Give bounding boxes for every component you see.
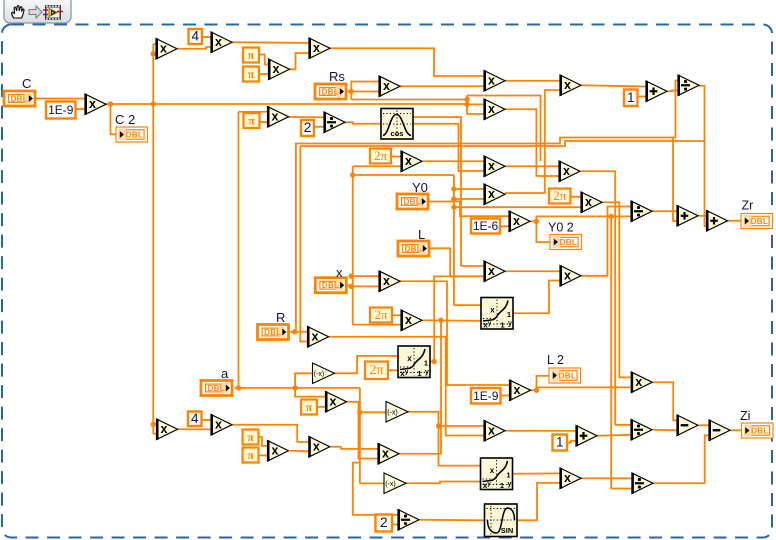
wire 1E-9 to multiply [76, 108, 86, 110]
svg-text:2: 2 [380, 514, 388, 530]
wire M8 out to M7 bottom [400, 85, 484, 87]
svg-text:x: x [330, 394, 337, 408]
wire const2b to D7 bottom [392, 523, 398, 525]
add A4 [576, 425, 597, 446]
junction V1 bus [151, 101, 156, 106]
junction Rs [349, 89, 354, 94]
junction bus B [464, 102, 469, 107]
svg-text:x: x [215, 35, 222, 49]
svg-text:1: 1 [556, 435, 564, 450]
control terminal x [315, 278, 346, 293]
wire M12 out up to M13 bottom [505, 90, 560, 193]
label x [336, 265, 343, 280]
wire x352 bus y175 [353, 174, 454, 176]
control terminal R [258, 325, 289, 340]
multiply M9 [484, 99, 505, 120]
svg-text:4: 4 [191, 411, 199, 426]
multiply M10 [484, 156, 505, 177]
svg-text:x: x [313, 41, 320, 55]
wire M23 out to A4 top [506, 430, 577, 432]
multiply M33 [378, 443, 399, 464]
multiply M31 [309, 436, 330, 457]
multiply M5 [309, 38, 330, 59]
divide D1 [324, 112, 345, 133]
wire x352 to M25 bottom [353, 324, 401, 326]
power of x icon POW3 [481, 458, 513, 490]
svg-text:x: x [313, 439, 320, 453]
svg-text:x: x [488, 187, 495, 201]
svg-text:2π: 2π [374, 148, 388, 163]
indicator terminal Zi [742, 423, 774, 438]
label Zr [742, 199, 754, 213]
wire M21 out down to S1 top [653, 382, 677, 420]
multiply M6 [268, 106, 289, 127]
svg-text:Zi: Zi [740, 409, 750, 423]
wire M28 out to M30 bottom [178, 428, 212, 430]
junction M20 out [534, 219, 539, 224]
wire M16 out to M10 top [423, 160, 484, 162]
wire M24 out up to D3 top [582, 207, 632, 276]
svg-text:x: x [405, 154, 412, 168]
junction V1 top [151, 51, 156, 56]
junction x175 [350, 172, 355, 177]
add A1 [646, 81, 667, 102]
svg-text:x: x [563, 164, 570, 178]
wire 2pi T3 to M25 top [392, 314, 401, 316]
svg-text:y: y [508, 481, 512, 488]
svg-text:x: x [405, 313, 412, 327]
wire 2pi T1 to M16 top [391, 156, 401, 158]
multiply M28 [157, 419, 178, 440]
wire M35 dot to M21 bottom [537, 387, 632, 390]
svg-text:(-x): (-x) [314, 371, 325, 378]
wire x461 to M36 top [461, 265, 484, 267]
svg-text:DBL: DBL [560, 238, 577, 247]
svg-text:x: x [488, 159, 495, 173]
svg-text:x: x [488, 102, 495, 116]
indicator terminal Y0 2 [550, 235, 582, 250]
wire 2pi T2 to M19 top [571, 196, 582, 198]
svg-text:x: x [272, 109, 279, 123]
control terminal L [398, 241, 429, 256]
wire x467 to M9 bottom [467, 113, 484, 115]
wire A4 out to D5 bottom [597, 434, 631, 437]
svg-text:DBL: DBL [559, 372, 576, 381]
wire D2 branch down to A3 bottom [705, 141, 707, 226]
wire SIN out up to M34 bottom [517, 483, 560, 520]
svg-text:x: x [635, 375, 642, 389]
junction bus A [464, 97, 469, 102]
pi constant P5 [243, 448, 259, 463]
wire const1b to A4 bottom [567, 441, 576, 443]
svg-text:R: R [276, 310, 285, 325]
svg-text:C: C [22, 76, 31, 91]
label C 2 [115, 112, 135, 127]
wire M19 out down to M21 top [603, 202, 632, 377]
svg-text:DBL: DBL [264, 328, 281, 337]
svg-text:cos: cos [391, 129, 404, 138]
wire Rs dot down bus y99.5 [351, 99, 467, 101]
wire branch to C 2 indicator [111, 104, 117, 134]
wire M30 out to M31 top [233, 425, 309, 442]
wire const4b to M30 top [202, 419, 212, 421]
svg-text:x: x [490, 466, 495, 475]
divide D7 [398, 509, 419, 530]
svg-text:2: 2 [304, 119, 312, 135]
pi constant P4 [243, 430, 259, 445]
junction pow1 out [432, 359, 437, 364]
constant 4 (bottom) [188, 411, 202, 426]
multiply M1 (C x 1E-9) [85, 94, 106, 115]
junction V453 c [451, 205, 456, 210]
divide D6 [632, 473, 653, 494]
wire M3 out to M5 top [232, 41, 309, 44]
svg-text:DBL: DBL [126, 131, 143, 140]
wire A3 out to Zr [728, 220, 741, 222]
svg-text:x: x [336, 265, 343, 280]
wire M4 out to M5 bottom [290, 53, 310, 69]
wire POW3 out to M34 top [513, 472, 561, 474]
2pi constant T1 [370, 148, 391, 164]
wire S2 out to Zi [730, 429, 742, 431]
wire D7 out to SIN [420, 519, 485, 522]
negate N2 [386, 402, 408, 423]
constant 2 (cos) [301, 119, 314, 136]
wire M20 out to dot [530, 220, 536, 222]
svg-text:DBL: DBL [751, 427, 768, 436]
control terminal C [4, 91, 35, 106]
multiply M30 [211, 414, 232, 435]
wire M10 out to M11 top [505, 165, 559, 167]
wire pi P2 to M4 bottom [259, 73, 269, 75]
svg-text:1: 1 [500, 321, 504, 330]
sine function icon [485, 504, 518, 537]
wire x terminal out [346, 284, 351, 286]
svg-text:π: π [247, 448, 254, 462]
wire M20 dot up to D3 bottom [536, 216, 631, 221]
multiply M11 [559, 161, 580, 182]
label L [418, 227, 425, 242]
svg-text:(-x): (-x) [387, 410, 398, 417]
2pi constant T3 [370, 307, 392, 323]
wire a to NEG2 [360, 411, 386, 413]
svg-text:x: x [514, 383, 521, 397]
wire V453 to M12 top [454, 188, 484, 190]
svg-text:x: x [160, 41, 167, 55]
wire V1 to M28 bottom [153, 433, 156, 435]
constant 1E-9 (L) [471, 388, 501, 404]
junction M35 out [534, 388, 539, 393]
wire D6 out up to S2 bottom [653, 435, 709, 483]
control terminal Rs [315, 84, 346, 99]
constant 1 (A1) [624, 90, 638, 107]
multiply M26 (x squared) [379, 271, 400, 292]
label Zi [740, 409, 750, 423]
wire V1 to M2 bottom [153, 53, 156, 55]
wire C to multiply [35, 98, 85, 100]
add A2 [677, 205, 698, 226]
wire Rs dot to M8 bottom [351, 91, 379, 93]
wire M2 out to M3 [177, 47, 211, 49]
divide D3 [631, 201, 652, 222]
negate N3 [384, 473, 406, 494]
wire 1E-6 to M20 bottom [500, 225, 509, 227]
label Y0 [412, 180, 428, 195]
junction V453 a [451, 186, 456, 191]
toolbar hand cursor icon [12, 6, 24, 18]
constant 4 (top) [189, 29, 203, 45]
wire M7 out to M13 top [505, 80, 560, 82]
wire x467 up right [467, 96, 541, 162]
constant 1 (A4) [553, 435, 568, 451]
wire V453 to M19 bottom [454, 206, 581, 208]
wire a to NEG3 [360, 482, 384, 484]
wire M6 out to D1 top [289, 116, 325, 118]
wire const1 to A1 bottom [638, 96, 647, 98]
multiply M16 (2pi) [401, 151, 422, 172]
svg-text:x: x [488, 264, 495, 278]
wire V1 to M2 top [153, 43, 156, 45]
wire pi P3 to M6 bottom [260, 121, 268, 123]
svg-text:1: 1 [627, 90, 635, 105]
wire x352 vertical [352, 166, 354, 324]
svg-text:π: π [248, 67, 255, 81]
junction M1 out [108, 101, 113, 106]
junction x upper [349, 273, 354, 278]
label a [221, 366, 229, 381]
wire pi P1 to M4 top [259, 55, 269, 65]
multiply M7 [484, 70, 505, 91]
svg-text:x: x [490, 306, 495, 315]
svg-text:2π: 2π [369, 363, 383, 378]
wire D1 out to cos input [345, 122, 381, 124]
wire cos out right [413, 124, 484, 171]
svg-text:x: x [161, 422, 168, 436]
toolbar VI icon [43, 5, 63, 20]
negate N1 [313, 363, 335, 384]
wire V2 x238 vertical [238, 112, 240, 388]
svg-text:1: 1 [500, 481, 504, 490]
svg-text:x: x [312, 329, 319, 343]
svg-text:a: a [221, 366, 229, 381]
wire second bus from cos area [413, 117, 461, 266]
svg-text:Y0 2: Y0 2 [548, 221, 574, 235]
wire M13 out to A1 top [582, 85, 647, 86]
wire L out down to M36 bottom [428, 248, 484, 276]
svg-text:1E-6: 1E-6 [473, 219, 499, 233]
junction a mid [292, 385, 297, 390]
svg-text:y: y [425, 369, 429, 376]
label Rs [329, 69, 345, 84]
svg-text:x: x [383, 79, 390, 93]
wire a branch down to M29 top [295, 388, 325, 397]
wire a bus down [359, 388, 361, 484]
svg-text:SIN: SIN [501, 526, 514, 535]
junction V453 b [451, 196, 456, 201]
power of x icon POW1 [398, 346, 430, 378]
svg-text:x: x [272, 443, 279, 457]
svg-text:DBL: DBL [404, 198, 421, 207]
wire 1E-9b to M35 bottom [501, 395, 510, 397]
junction x lower [349, 284, 354, 289]
wire Y0 out [429, 202, 509, 217]
indicator terminal L 2 [549, 368, 581, 383]
junction a V2 [236, 385, 241, 390]
svg-text:x: x [585, 195, 592, 209]
wire junction x467 [466, 96, 468, 115]
wire M26 out down to M35 top [400, 281, 510, 385]
svg-text:1E-9: 1E-9 [473, 389, 499, 403]
wire NEG3 out to POW3 bottom [406, 482, 481, 484]
wire NEG1 out to POW1 top [335, 356, 399, 373]
wire a to D7 top [353, 463, 398, 515]
svg-text:π: π [306, 400, 313, 414]
wire M9 out down to M11 bottom [505, 109, 559, 176]
svg-text:x: x [407, 354, 412, 363]
junction V1 bottom [151, 422, 156, 427]
wire M35 dot up to L2 [537, 376, 550, 390]
wire a out bus [235, 387, 360, 389]
wire Rs out [346, 91, 351, 93]
svg-text:x: x [89, 97, 96, 111]
wire M5 out to M7 top [330, 48, 484, 76]
junction D3 bottom [609, 214, 614, 219]
svg-text:DBL: DBL [11, 95, 28, 104]
wire a branch up to NEG1 [295, 373, 312, 388]
multiply M2 [156, 38, 177, 59]
svg-text:1: 1 [424, 359, 428, 368]
wire M25 out to POW2 bottom [423, 319, 481, 322]
wire Rs dot up to M8 top [351, 82, 379, 100]
wire D2 out down left bus [300, 86, 704, 146]
wire pi P4 to M32 top [259, 437, 268, 446]
wire M20 dot down to Y0 2 [536, 221, 550, 242]
wire R out to M27 top [289, 331, 308, 333]
wire x467 to M9 top [467, 103, 484, 105]
svg-text:DBL: DBL [208, 384, 225, 393]
junction a neg2 [357, 410, 362, 415]
svg-text:x: x [564, 78, 571, 92]
wire POW2 out to M24 bottom [513, 281, 561, 314]
multiply M25 (2pi x) [401, 310, 422, 331]
svg-text:x: x [215, 417, 222, 431]
subtract S1 [677, 415, 698, 436]
svg-text:x: x [513, 214, 520, 228]
svg-text:π: π [248, 48, 255, 62]
svg-text:1: 1 [506, 471, 510, 480]
wire D5 out to S1 bottom [653, 429, 677, 432]
svg-text:y: y [508, 321, 512, 328]
label C [22, 76, 31, 91]
svg-text:x: x [383, 274, 390, 288]
label Y0 2 [548, 221, 574, 235]
svg-text:DBL: DBL [322, 88, 339, 97]
multiply M29 (a pi) [326, 391, 347, 412]
multiply M20 (1E-6) [509, 211, 530, 232]
svg-text:2π: 2π [374, 307, 388, 322]
multiply M8 (Rs squared) [379, 76, 400, 97]
wire POW1 out up to M36 bottom [430, 276, 485, 361]
multiply M21 [631, 372, 652, 393]
control terminal Y0 [397, 194, 428, 209]
multiply M34 [560, 468, 581, 489]
wire M29 out down to M33 bottom [347, 402, 378, 459]
wire const4 to M3 [202, 36, 211, 38]
svg-text:DBL: DBL [405, 245, 422, 254]
multiply M24 [560, 265, 581, 286]
multiply M13 [560, 75, 581, 96]
svg-text:Y0: Y0 [412, 180, 428, 195]
wire D3 out to A2 top [652, 210, 677, 212]
divide D5 [631, 419, 652, 440]
wire x352 to M16 bottom [353, 165, 401, 167]
cosine function icon [381, 109, 413, 140]
svg-text:DBL: DBL [751, 217, 768, 226]
wire M33 out up join [400, 320, 442, 454]
svg-text:x: x [382, 446, 389, 460]
wire x to M26 bottom [351, 285, 379, 287]
toolbar arrow icon [29, 6, 42, 18]
svg-text:L 2: L 2 [547, 353, 564, 367]
junction neg2 branch [436, 423, 441, 428]
constant 2 (sin) [376, 514, 393, 532]
svg-text:x: x [564, 471, 571, 485]
wire M11 out down to D5 top [581, 171, 631, 425]
svg-text:x: x [488, 423, 495, 437]
junction R [292, 329, 297, 334]
svg-text:x: x [273, 62, 280, 76]
wire M32 out to M31 bottom [290, 450, 309, 453]
indicator terminal Zr [741, 214, 773, 229]
multiply M27 (R x) [308, 326, 329, 347]
wire D2 bus down to M27 bottom [300, 146, 307, 342]
wire V453 to POW2 top [454, 304, 481, 306]
multiply M4 (pi x pi) [269, 59, 290, 80]
2pi constant T2 [549, 188, 571, 204]
svg-text:DBL: DBL [322, 281, 339, 290]
control terminal a [201, 381, 232, 396]
divide D2 [678, 75, 699, 96]
wire M36 out to M24 top [505, 270, 560, 272]
wire R vertical to bus and D2 top [296, 81, 678, 332]
svg-text:1: 1 [417, 369, 421, 378]
toolbar panel [4, 0, 71, 23]
wire D3 bottom bus down to D6 bottom [611, 216, 632, 488]
svg-text:4: 4 [191, 29, 199, 44]
svg-text:(-x): (-x) [385, 481, 396, 488]
svg-text:π: π [248, 114, 255, 128]
wire A2 bottom feed [673, 138, 677, 222]
svg-text:Rs: Rs [329, 69, 345, 84]
add A3 [707, 210, 728, 231]
multiply M23 [484, 420, 505, 441]
indicator terminal C 2 [116, 127, 148, 142]
wire pi P6 to M29 bottom [317, 406, 326, 408]
pi constant P1 [243, 48, 259, 63]
wire S1 out to S2 top [699, 424, 709, 426]
wire NEG2 out down [407, 412, 481, 466]
wire M27 out down to M23 bottom [329, 337, 484, 436]
label R [276, 310, 285, 325]
svg-text:Zr: Zr [742, 199, 754, 213]
constant 1E-6 [471, 219, 500, 234]
label L 2 [547, 353, 564, 367]
svg-text:x: x [564, 268, 571, 282]
svg-text:x: x [488, 73, 495, 87]
pi constant P2 [243, 67, 259, 82]
multiply M36 [484, 261, 505, 282]
wire 2pi T4 to POW1 bottom [388, 369, 398, 371]
